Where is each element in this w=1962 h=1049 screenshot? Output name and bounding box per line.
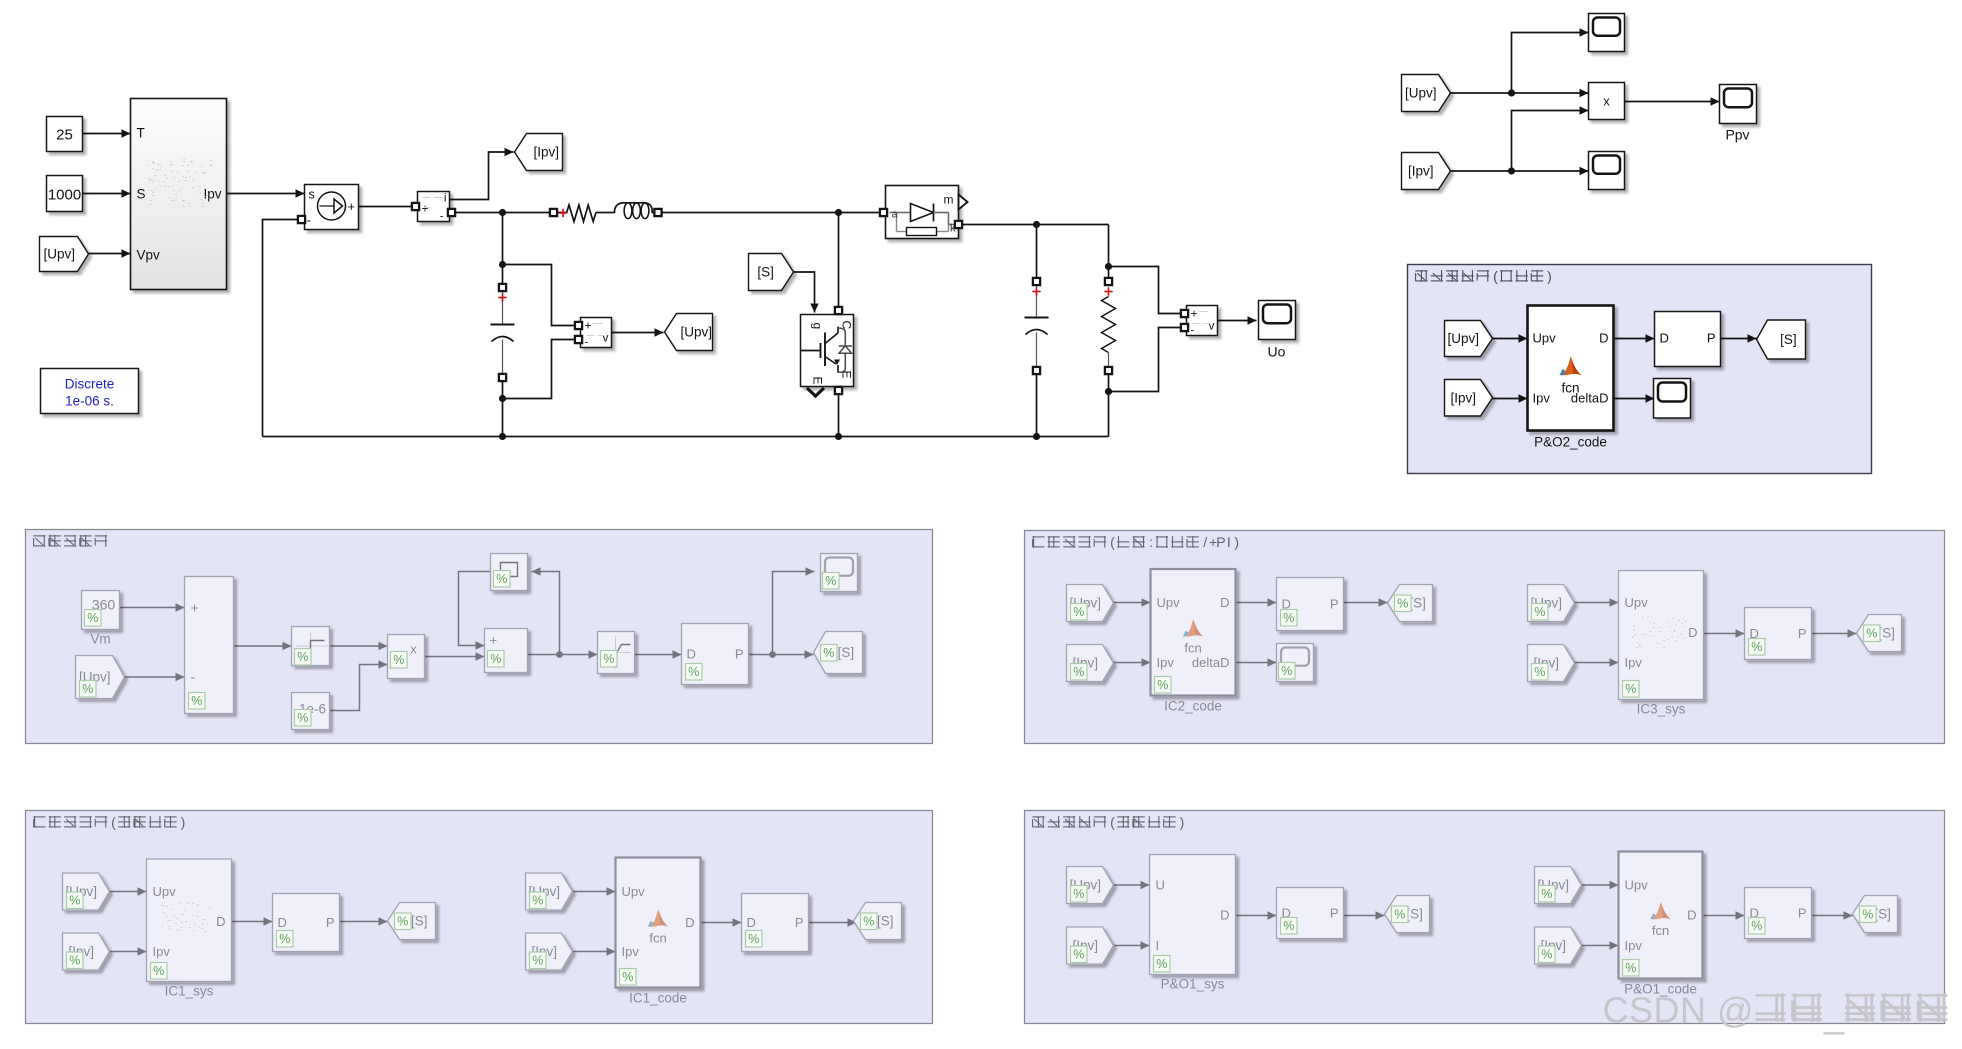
svg-text:%: % <box>1866 627 1877 641</box>
svg-text:D: D <box>747 915 756 930</box>
svg-text:%: % <box>1156 957 1167 971</box>
svg-text:%: % <box>1751 640 1762 654</box>
svg-text:Ipv: Ipv <box>1533 391 1551 406</box>
svg-text:x: x <box>410 642 417 657</box>
svg-text:[S]: [S] <box>1878 626 1895 641</box>
svg-text:D: D <box>1660 331 1669 346</box>
svg-text:[Ipv]: [Ipv] <box>1408 164 1434 179</box>
svg-text:fcn: fcn <box>1652 923 1669 938</box>
svg-text:P: P <box>1707 331 1716 346</box>
svg-text:a: a <box>892 209 899 221</box>
svg-text:%: % <box>69 894 80 908</box>
svg-text:Ipv: Ipv <box>1625 938 1643 953</box>
svg-text:Vpv: Vpv <box>137 248 161 263</box>
svg-text:-: - <box>307 213 311 228</box>
svg-text:T: T <box>137 126 145 141</box>
svg-text:%: % <box>1157 678 1168 692</box>
svg-text:Uo: Uo <box>1268 344 1286 360</box>
svg-text:D: D <box>278 915 287 930</box>
svg-text:%: % <box>532 894 543 908</box>
svg-text:): ) <box>1180 814 1185 830</box>
svg-text:[S]: [S] <box>877 914 894 929</box>
svg-text:[Ipv]: [Ipv] <box>1450 390 1476 405</box>
svg-text:+: + <box>585 319 592 333</box>
svg-text:IC1_sys: IC1_sys <box>165 984 214 999</box>
svg-text:-: - <box>1191 325 1195 337</box>
svg-text:P: P <box>326 915 335 930</box>
svg-text:v: v <box>603 331 609 345</box>
svg-text:%: % <box>1534 605 1545 619</box>
svg-text:+: + <box>348 199 356 214</box>
svg-text:P&O1_sys: P&O1_sys <box>1161 977 1225 992</box>
svg-text:IC2_code: IC2_code <box>1164 699 1222 714</box>
svg-text:(: ( <box>111 814 116 830</box>
svg-text:I: I <box>1156 938 1160 953</box>
svg-text:-: - <box>440 211 444 223</box>
svg-text:Vm: Vm <box>90 632 110 647</box>
svg-text:%: % <box>1073 605 1084 619</box>
svg-text:D: D <box>1688 625 1697 640</box>
svg-text:Discrete: Discrete <box>65 377 115 392</box>
svg-text:Upv: Upv <box>1625 595 1649 610</box>
svg-text:+: + <box>490 633 498 648</box>
svg-text:%: % <box>1541 948 1552 962</box>
svg-text:Ipv: Ipv <box>203 187 221 202</box>
svg-text:[S]: [S] <box>1409 596 1426 611</box>
svg-text:I: I <box>1227 534 1231 550</box>
svg-text:Upv: Upv <box>1533 331 1557 346</box>
svg-text:25: 25 <box>56 127 73 144</box>
svg-text:%: % <box>622 970 633 984</box>
svg-text:_: _ <box>1823 995 1845 1036</box>
svg-text:fcn: fcn <box>1561 381 1579 396</box>
svg-text:%: % <box>490 652 501 666</box>
svg-text:%: % <box>1541 887 1552 901</box>
svg-text:): ) <box>1234 534 1239 550</box>
svg-text:Ipv: Ipv <box>1157 655 1175 670</box>
svg-text:m: m <box>944 193 954 207</box>
svg-text:%: % <box>1625 682 1636 696</box>
svg-text:fcn: fcn <box>649 931 666 946</box>
svg-text:+: + <box>1191 307 1198 321</box>
svg-text:IC3_sys: IC3_sys <box>1637 702 1686 717</box>
svg-text:%: % <box>297 711 308 725</box>
svg-text:P: P <box>1330 906 1339 921</box>
svg-text:g: g <box>811 323 825 330</box>
svg-text:%: % <box>279 932 290 946</box>
svg-text:D: D <box>1220 595 1229 610</box>
svg-text:%: % <box>1281 664 1292 678</box>
svg-text:%: % <box>1397 597 1408 611</box>
svg-text:%: % <box>823 646 834 660</box>
svg-text:D: D <box>1687 908 1696 923</box>
svg-text:[Upv]: [Upv] <box>44 247 76 262</box>
svg-text:Ipv: Ipv <box>153 944 171 959</box>
svg-text:%: % <box>1073 948 1084 962</box>
svg-text:D: D <box>685 915 694 930</box>
svg-text:%: % <box>191 694 202 708</box>
svg-text:%: % <box>1073 665 1084 679</box>
svg-text:i: i <box>444 191 447 205</box>
svg-text:%: % <box>397 915 408 929</box>
svg-text:Ipv: Ipv <box>622 944 640 959</box>
svg-text:-: - <box>191 669 196 685</box>
svg-text:-: - <box>585 337 589 349</box>
svg-text:%: % <box>1625 961 1636 975</box>
svg-text:Upv: Upv <box>622 884 646 899</box>
svg-text:fcn: fcn <box>1184 640 1201 655</box>
svg-text:(: ( <box>1110 814 1115 830</box>
svg-text:x: x <box>1603 94 1610 109</box>
svg-text:U: U <box>1156 878 1165 893</box>
svg-text:[S]: [S] <box>838 645 855 660</box>
svg-text:%: % <box>1862 908 1873 922</box>
svg-text:[Upv]: [Upv] <box>681 325 713 340</box>
svg-text:%: % <box>153 964 164 978</box>
svg-text:%: % <box>688 665 699 679</box>
svg-text:D: D <box>1220 908 1229 923</box>
svg-text:%: % <box>1283 919 1294 933</box>
svg-text:Ppv: Ppv <box>1725 127 1749 143</box>
svg-text:/: / <box>1203 534 1207 550</box>
svg-text:%: % <box>1534 665 1545 679</box>
svg-text:P: P <box>735 647 744 662</box>
svg-text:Upv: Upv <box>1625 878 1649 893</box>
svg-text:P: P <box>1216 534 1225 550</box>
svg-text:D: D <box>1599 331 1608 346</box>
svg-text:1000: 1000 <box>48 187 81 204</box>
svg-text:P: P <box>1798 906 1807 921</box>
svg-text:IC1_code: IC1_code <box>629 991 687 1006</box>
svg-text:%: % <box>297 650 308 664</box>
svg-text:[S]: [S] <box>1406 907 1423 922</box>
svg-text:[Upv]: [Upv] <box>1447 331 1479 346</box>
svg-text:[S]: [S] <box>1874 907 1891 922</box>
svg-text:Ipv: Ipv <box>1625 655 1643 670</box>
svg-text:S: S <box>137 187 146 202</box>
svg-text:P&O2_code: P&O2_code <box>1534 435 1607 450</box>
svg-text:[Ipv]: [Ipv] <box>534 145 560 160</box>
svg-text:P: P <box>795 915 804 930</box>
svg-text:P: P <box>1798 626 1807 641</box>
svg-text:Upv: Upv <box>153 884 177 899</box>
svg-text::: : <box>1149 534 1153 550</box>
svg-text:%: % <box>825 574 836 588</box>
svg-text:%: % <box>1394 908 1405 922</box>
svg-text:%: % <box>82 682 93 696</box>
svg-text:s: s <box>309 188 315 202</box>
svg-text:%: % <box>603 652 614 666</box>
svg-text:+: + <box>191 600 199 616</box>
svg-text:%: % <box>393 653 404 667</box>
svg-text:): ) <box>1547 268 1552 284</box>
svg-text:Upv: Upv <box>1157 595 1181 610</box>
svg-text:(: ( <box>1493 268 1498 284</box>
svg-text:%: % <box>1283 611 1294 625</box>
svg-text:(: ( <box>1110 534 1115 550</box>
svg-text:[S]: [S] <box>757 265 774 280</box>
svg-text:[Upv]: [Upv] <box>1405 86 1437 101</box>
svg-text:%: % <box>1073 887 1084 901</box>
svg-text:): ) <box>181 814 186 830</box>
svg-text:%: % <box>748 932 759 946</box>
svg-text:v: v <box>1209 319 1215 333</box>
svg-text:P: P <box>1330 597 1339 612</box>
svg-text:E: E <box>811 376 825 384</box>
svg-text:+: + <box>422 202 429 216</box>
svg-text:%: % <box>863 915 874 929</box>
svg-text:%: % <box>1751 919 1762 933</box>
svg-text:%: % <box>87 611 98 625</box>
svg-text:D: D <box>687 647 696 662</box>
svg-text:[S]: [S] <box>411 914 428 929</box>
svg-text:D: D <box>216 914 225 929</box>
svg-text:%: % <box>69 954 80 968</box>
svg-text:CSDN @: CSDN @ <box>1603 990 1755 1031</box>
svg-text:[S]: [S] <box>1780 332 1797 347</box>
svg-text:%: % <box>532 954 543 968</box>
svg-text:deltaD: deltaD <box>1192 655 1230 670</box>
svg-text:%: % <box>496 572 507 586</box>
svg-text:1e-06 s.: 1e-06 s. <box>65 394 114 409</box>
